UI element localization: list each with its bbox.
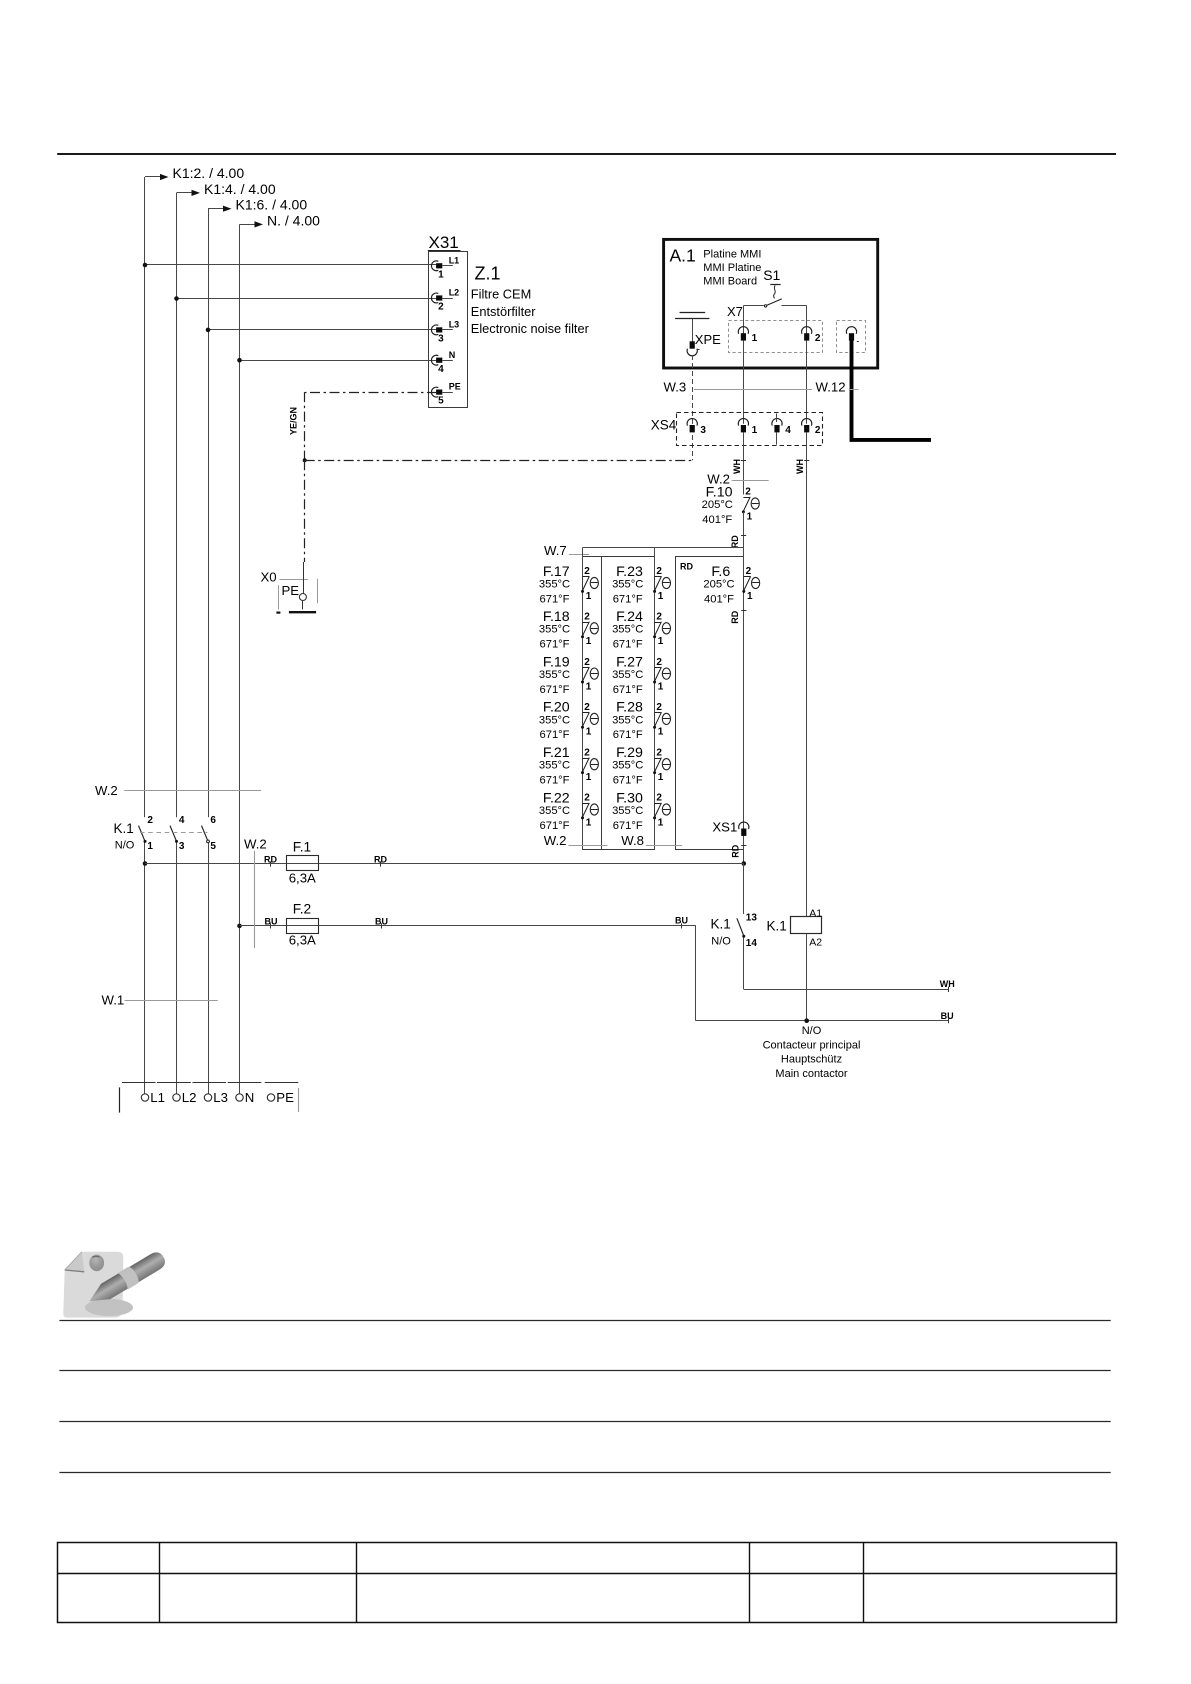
svg-text:RD: RD (730, 535, 740, 548)
svg-text:K1:2. / 4.00: K1:2. / 4.00 (173, 165, 245, 181)
svg-text:355°C: 355°C (539, 669, 570, 681)
svg-text:MMI Board: MMI Board (703, 275, 757, 287)
svg-text:401°F: 401°F (702, 514, 732, 526)
svg-text:F.20: F.20 (543, 700, 570, 716)
svg-text:2: 2 (584, 657, 590, 668)
svg-text:1: 1 (658, 772, 664, 783)
svg-text:L3: L3 (449, 320, 460, 330)
svg-text:2: 2 (584, 793, 590, 804)
svg-text:3: 3 (700, 425, 706, 436)
svg-text:355°C: 355°C (539, 714, 570, 726)
svg-text:F.17: F.17 (543, 564, 570, 580)
svg-text:K1:4. / 4.00: K1:4. / 4.00 (204, 181, 276, 197)
svg-text:671°F: 671°F (613, 639, 643, 651)
svg-text:F.18: F.18 (543, 609, 570, 625)
svg-text:Electronic noise filter: Electronic noise filter (471, 321, 590, 336)
svg-text:6,3A: 6,3A (289, 933, 316, 948)
svg-text:1: 1 (658, 817, 664, 828)
svg-text:1: 1 (438, 269, 444, 280)
svg-text:F.21: F.21 (543, 745, 570, 761)
svg-text:RD: RD (731, 844, 741, 857)
svg-text:2: 2 (815, 425, 821, 436)
svg-text:YE/GN: YE/GN (289, 407, 299, 435)
svg-text:2: 2 (656, 657, 662, 668)
svg-text:Hauptschütz: Hauptschütz (781, 1054, 842, 1066)
svg-text:W.2: W.2 (244, 836, 267, 851)
svg-text:2: 2 (584, 702, 590, 713)
svg-text:X0: X0 (261, 570, 277, 585)
svg-text:2: 2 (656, 566, 662, 577)
svg-text:F.10: F.10 (706, 484, 733, 500)
svg-text:PE: PE (282, 583, 300, 598)
svg-text:5: 5 (438, 396, 444, 407)
svg-text:5: 5 (210, 841, 216, 852)
svg-text:L3: L3 (213, 1090, 228, 1105)
svg-text:671°F: 671°F (613, 729, 643, 741)
svg-text:F.6: F.6 (711, 564, 730, 580)
svg-text:Entstörfilter: Entstörfilter (471, 304, 536, 319)
svg-text:N/O: N/O (115, 839, 135, 851)
svg-text:205°C: 205°C (703, 578, 734, 590)
svg-text:4: 4 (179, 815, 185, 826)
svg-text:F.27: F.27 (616, 654, 643, 670)
svg-text:2: 2 (584, 747, 590, 758)
svg-text:671°F: 671°F (540, 820, 570, 832)
svg-text:1: 1 (752, 333, 758, 344)
svg-text:W.8: W.8 (621, 833, 644, 848)
svg-text:BU: BU (941, 1011, 954, 1021)
svg-text:671°F: 671°F (613, 684, 643, 696)
svg-text:671°F: 671°F (540, 684, 570, 696)
svg-text:2: 2 (584, 566, 590, 577)
svg-text:Z.1: Z.1 (475, 264, 501, 284)
svg-text:WH: WH (795, 459, 805, 474)
svg-text:2: 2 (656, 612, 662, 623)
svg-text:355°C: 355°C (539, 624, 570, 636)
svg-text:1: 1 (586, 681, 592, 692)
svg-text:1: 1 (658, 681, 664, 692)
svg-text:W.7: W.7 (544, 543, 567, 558)
svg-text:A.1: A.1 (670, 246, 696, 266)
svg-text:355°C: 355°C (612, 760, 643, 772)
svg-text:3: 3 (179, 841, 185, 852)
svg-text:W.2: W.2 (95, 783, 118, 798)
svg-text:355°C: 355°C (612, 805, 643, 817)
svg-text:F.30: F.30 (616, 790, 643, 806)
svg-text:1: 1 (658, 727, 664, 738)
svg-text:1: 1 (747, 511, 753, 522)
svg-text:W.3: W.3 (664, 379, 687, 394)
svg-text:1: 1 (147, 841, 153, 852)
svg-text:W.2: W.2 (544, 833, 567, 848)
svg-text:X7: X7 (727, 304, 743, 319)
svg-text:6: 6 (210, 815, 216, 826)
svg-text:Filtre CEM: Filtre CEM (471, 287, 531, 302)
svg-text:XPE: XPE (695, 332, 721, 347)
svg-text:W.1: W.1 (102, 992, 125, 1007)
svg-text:X31: X31 (429, 233, 459, 252)
svg-text:355°C: 355°C (539, 578, 570, 590)
svg-text:1: 1 (747, 591, 753, 602)
svg-text:355°C: 355°C (612, 578, 643, 590)
svg-text:671°F: 671°F (613, 593, 643, 605)
svg-text:A1: A1 (809, 907, 822, 919)
svg-text:1: 1 (586, 591, 592, 602)
svg-text:F.23: F.23 (616, 564, 643, 580)
svg-text:355°C: 355°C (539, 805, 570, 817)
svg-text:2: 2 (656, 747, 662, 758)
svg-text:L1: L1 (449, 255, 460, 265)
svg-text:RD: RD (730, 610, 740, 623)
svg-text:F.1: F.1 (293, 839, 311, 854)
svg-text:401°F: 401°F (704, 593, 734, 605)
svg-text:N/O: N/O (711, 935, 731, 947)
svg-text:F.29: F.29 (616, 745, 643, 761)
svg-text:355°C: 355°C (612, 669, 643, 681)
svg-text:4: 4 (785, 425, 791, 436)
svg-text:N/O: N/O (802, 1025, 822, 1037)
svg-text:2: 2 (147, 815, 153, 826)
svg-text:2: 2 (656, 702, 662, 713)
svg-text:355°C: 355°C (539, 760, 570, 772)
svg-text:K.1: K.1 (767, 919, 787, 934)
svg-text:F.2: F.2 (293, 902, 311, 917)
svg-text:WH: WH (732, 459, 742, 474)
svg-text:13: 13 (746, 913, 758, 924)
svg-text:671°F: 671°F (540, 639, 570, 651)
svg-text:N. / 4.00: N. / 4.00 (267, 212, 320, 228)
svg-text:14: 14 (746, 938, 758, 949)
svg-text:F.24: F.24 (616, 609, 643, 625)
svg-text:PE: PE (449, 382, 461, 392)
svg-text:2: 2 (745, 487, 751, 498)
svg-text:1: 1 (658, 591, 664, 602)
svg-text:1: 1 (586, 727, 592, 738)
svg-text:671°F: 671°F (540, 593, 570, 605)
svg-text:671°F: 671°F (540, 729, 570, 741)
svg-text:Contacteur principal: Contacteur principal (763, 1039, 861, 1051)
svg-text:A2: A2 (809, 936, 822, 948)
svg-text:2: 2 (746, 566, 752, 577)
svg-text:K1:6. / 4.00: K1:6. / 4.00 (236, 197, 308, 213)
svg-text:N: N (245, 1090, 255, 1105)
svg-text:L2: L2 (182, 1090, 197, 1105)
svg-text:2: 2 (438, 302, 444, 313)
svg-text:F.22: F.22 (543, 790, 570, 806)
svg-text:6,3A: 6,3A (289, 870, 316, 885)
svg-text:2: 2 (584, 612, 590, 623)
svg-text:F.19: F.19 (543, 654, 570, 670)
svg-text:1: 1 (586, 817, 592, 828)
svg-text:L1: L1 (150, 1090, 165, 1105)
svg-text:2: 2 (815, 333, 821, 344)
svg-text:355°C: 355°C (612, 624, 643, 636)
svg-text:XS1: XS1 (712, 820, 737, 835)
svg-text:W.12: W.12 (816, 379, 846, 394)
svg-text:N: N (449, 350, 456, 360)
svg-text:671°F: 671°F (540, 775, 570, 787)
svg-text:Main contactor: Main contactor (775, 1068, 847, 1080)
svg-text:MMI Platine: MMI Platine (703, 262, 761, 274)
svg-text:L2: L2 (449, 288, 460, 298)
svg-text:K.1: K.1 (711, 916, 731, 931)
svg-text:1: 1 (752, 425, 758, 436)
svg-text:2: 2 (656, 793, 662, 804)
svg-text:355°C: 355°C (612, 714, 643, 726)
svg-text:PE: PE (276, 1090, 294, 1105)
svg-text:671°F: 671°F (613, 775, 643, 787)
svg-text:671°F: 671°F (613, 820, 643, 832)
svg-text:RD: RD (680, 561, 693, 571)
svg-text:1: 1 (586, 772, 592, 783)
svg-text:WH: WH (940, 979, 955, 989)
svg-text:K.1: K.1 (114, 821, 134, 836)
svg-text:1: 1 (658, 636, 664, 647)
svg-text:XS4: XS4 (651, 417, 677, 432)
svg-text:3: 3 (438, 334, 444, 345)
svg-text:4: 4 (438, 364, 444, 375)
svg-text:205°C: 205°C (702, 499, 733, 511)
svg-text:1: 1 (586, 636, 592, 647)
svg-text:Platine MMI: Platine MMI (703, 249, 761, 261)
svg-text:F.28: F.28 (616, 700, 643, 716)
svg-text:S1: S1 (763, 267, 780, 283)
